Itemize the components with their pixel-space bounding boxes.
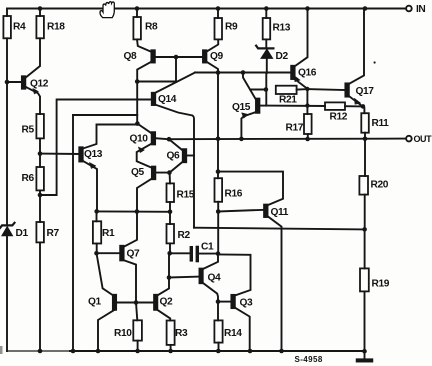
svg-text:R6: R6: [22, 173, 35, 184]
resistor R6: [22, 154, 44, 195]
resistor R16: [215, 178, 243, 253]
svg-text:R12: R12: [330, 112, 348, 123]
node mirror column bottom: [135, 121, 140, 126]
transistor Q14: [152, 73, 195, 228]
transistor Q6: [167, 149, 195, 172]
node Q12 base on left rail: [5, 80, 10, 85]
wire bias line to R15/R2 node: [97, 210, 170, 212]
resistor R19: [360, 229, 390, 351]
wire R6-bottom up-and-over to Q14 base: [40, 100, 152, 196]
node R16 bottom / Q11 base: [216, 209, 221, 214]
transistor Q17: [345, 9, 374, 114]
node Q9 emitter on bus: [216, 70, 221, 75]
svg-text:Q4: Q4: [208, 273, 222, 284]
node Q15 base tap on bus: [241, 70, 246, 75]
resistor R5: [22, 114, 44, 154]
svg-text:Q16: Q16: [298, 68, 317, 79]
node R15/R2 junction: [168, 210, 173, 215]
transistor Q11: [218, 172, 289, 351]
svg-text:IN: IN: [416, 4, 425, 15]
speck artifact: [374, 61, 376, 63]
svg-text:Q15: Q15: [232, 102, 251, 113]
wire ground return (Q14 emitter line) left vertical: [72, 115, 74, 351]
node Q13 emitter / R1 top junction: [94, 209, 99, 214]
svg-text:R13: R13: [273, 23, 291, 34]
svg-text:R3: R3: [175, 328, 188, 339]
svg-text:R16: R16: [225, 189, 243, 200]
svg-text:Q5: Q5: [131, 167, 145, 178]
node R1 bottom / Q7 base / Q1 collector: [94, 251, 99, 256]
resistor R11: [361, 113, 389, 139]
node R6 bottom junction: [38, 193, 43, 198]
node Q2 collector / R2 / C1 junction: [167, 251, 172, 256]
svg-text:Q17: Q17: [356, 86, 375, 97]
node Q4 emitter / Q3 base / R14 top: [216, 299, 221, 304]
resistor R8: [133, 9, 158, 40]
node R17 bottom on output bus: [305, 137, 310, 142]
resistor R21: [276, 86, 308, 106]
wire Q11 emitter bus to R19/R20 node: [194, 228, 365, 230]
node R21 left junction: [264, 87, 269, 92]
resistor R4: [3, 9, 26, 226]
terminal OUT: [406, 134, 432, 144]
svg-text:R8: R8: [145, 22, 158, 33]
node Q17 emitter / R12 / R11 junction: [361, 104, 366, 109]
svg-text:R21: R21: [279, 95, 297, 106]
transistor Q9: [203, 39, 224, 72]
resistor R1: [93, 211, 115, 253]
transistor Q4: [200, 254, 222, 302]
node R5/R6/Q13-base junction: [38, 151, 43, 156]
ground symbol: [356, 351, 373, 362]
svg-text:R14: R14: [224, 328, 242, 339]
node Q15 emitter on output line: [239, 137, 244, 142]
svg-text:R10: R10: [114, 328, 132, 339]
node C1 / Q3 collector loop junction: [216, 251, 221, 256]
node Q10 collector on output line: [167, 137, 172, 142]
wire Q17 base line: [307, 88, 345, 91]
svg-text:R19: R19: [372, 279, 390, 290]
resistor R18: [36, 9, 65, 39]
scan smudge bottom-left: [0, 346, 3, 354]
svg-text:R4: R4: [13, 22, 26, 33]
wire mirror column Q8 to Q10 node: [136, 82, 138, 124]
wire output bus: [169, 138, 406, 141]
terminal IN: [406, 4, 425, 15]
transistor Q13: [79, 125, 137, 212]
node output bus / input column: [216, 137, 221, 142]
svg-text:Q6: Q6: [167, 151, 181, 162]
svg-text:R7: R7: [47, 228, 60, 239]
transistor Q16: [291, 9, 317, 89]
zener diode D2: [256, 9, 288, 74]
wire Q13 base line: [40, 153, 79, 155]
wire horizontal to mirror column: [73, 114, 137, 116]
svg-text:R17: R17: [286, 123, 304, 134]
wire Q4 base line: [169, 276, 199, 279]
svg-text:Q2: Q2: [160, 297, 174, 308]
transistor Q2: [154, 253, 173, 320]
svg-text:Q7: Q7: [127, 249, 141, 260]
node ground rail dots: [38, 349, 284, 354]
svg-text:R18: R18: [47, 22, 65, 33]
svg-text:Q12: Q12: [30, 79, 49, 90]
node R11/R20 on output bus: [363, 137, 368, 142]
resistor R9: [215, 9, 238, 40]
node Q16emitter/R21/Q17base junction: [305, 87, 309, 91]
svg-text:Q10: Q10: [130, 134, 149, 145]
svg-text:OUT: OUT: [414, 134, 432, 144]
node column/collector loop junction: [216, 169, 221, 174]
svg-text:R1: R1: [102, 228, 115, 239]
resistor R15: [167, 173, 195, 212]
transistor Q7: [97, 246, 141, 303]
zener diode D1: [0, 223, 28, 351]
svg-text:R2: R2: [178, 230, 191, 241]
resistor R10: [114, 303, 142, 352]
resistor R14: [214, 302, 242, 351]
svg-text:D1: D1: [16, 228, 29, 239]
svg-text:D2: D2: [276, 51, 289, 62]
wire bottom ground rail: [7, 350, 70, 352]
wire Q16 emitter / R17 column: [306, 89, 308, 114]
svg-text:Q1: Q1: [88, 297, 102, 308]
wire R21 node to R12: [266, 105, 325, 107]
svg-text:R5: R5: [22, 125, 35, 136]
resistor R20: [359, 139, 388, 230]
wire R18 to Q12 collector: [26, 38, 40, 77]
wire R9/R16 column: [217, 73, 219, 179]
node Q1/Q2 base junction: [134, 300, 139, 305]
svg-text:R20: R20: [371, 180, 389, 191]
wire Q10 node to Q6 collector: [169, 139, 183, 150]
node Q5 base / Q6 emitter / R15 top: [167, 170, 172, 175]
wire R21-left short tap to Q15 base slant: [250, 89, 266, 91]
node top rail junction dots: [38, 6, 368, 11]
node Q4 base tap: [167, 275, 172, 280]
resistor R3: [167, 321, 188, 352]
svg-text:Q3: Q3: [240, 298, 254, 309]
svg-text:R15: R15: [177, 190, 195, 201]
svg-text:Q14: Q14: [158, 94, 177, 105]
resistor R12: [325, 102, 363, 122]
svg-text:Q11: Q11: [271, 207, 289, 218]
transistor Q15: [232, 73, 266, 139]
wire D2 column to R21/Q15 tie: [265, 73, 267, 106]
resistor R7: [36, 195, 59, 351]
node crossing of Q5/Q7 column on bias line: [135, 209, 140, 214]
wire second-stage bias bus y=72.5: [195, 72, 291, 74]
svg-text:Q13: Q13: [84, 149, 103, 160]
transistor Q3: [218, 254, 253, 351]
wire top supply rail: [7, 8, 406, 10]
resistor R2: [167, 212, 191, 254]
transistor Q5: [131, 167, 169, 212]
node R20 bottom / Q11 emitter bus: [362, 227, 367, 232]
hand cursor artifact: [100, 2, 114, 18]
svg-text:Q8: Q8: [124, 51, 138, 62]
transistor Q12: [7, 76, 49, 114]
svg-text:C1: C1: [201, 242, 214, 253]
svg-text:R9: R9: [225, 22, 238, 33]
svg-text:S-4958: S-4958: [295, 355, 323, 364]
transistor Q10: [130, 124, 170, 168]
svg-text:Q9: Q9: [210, 51, 224, 62]
capacitor C1: [170, 242, 218, 263]
resistor R13: [263, 18, 291, 39]
wire Q7 collector column: [125, 211, 137, 246]
node Q8/Q9 base tie: [174, 55, 179, 60]
transistor Q8: [124, 39, 204, 81]
node Q8 emitter corner: [135, 79, 140, 84]
node R17 top junction: [305, 103, 309, 107]
resistor R17: [286, 114, 312, 139]
transistor Q1: [88, 253, 154, 351]
node ground column: [362, 349, 367, 354]
svg-text:R11: R11: [372, 118, 390, 129]
